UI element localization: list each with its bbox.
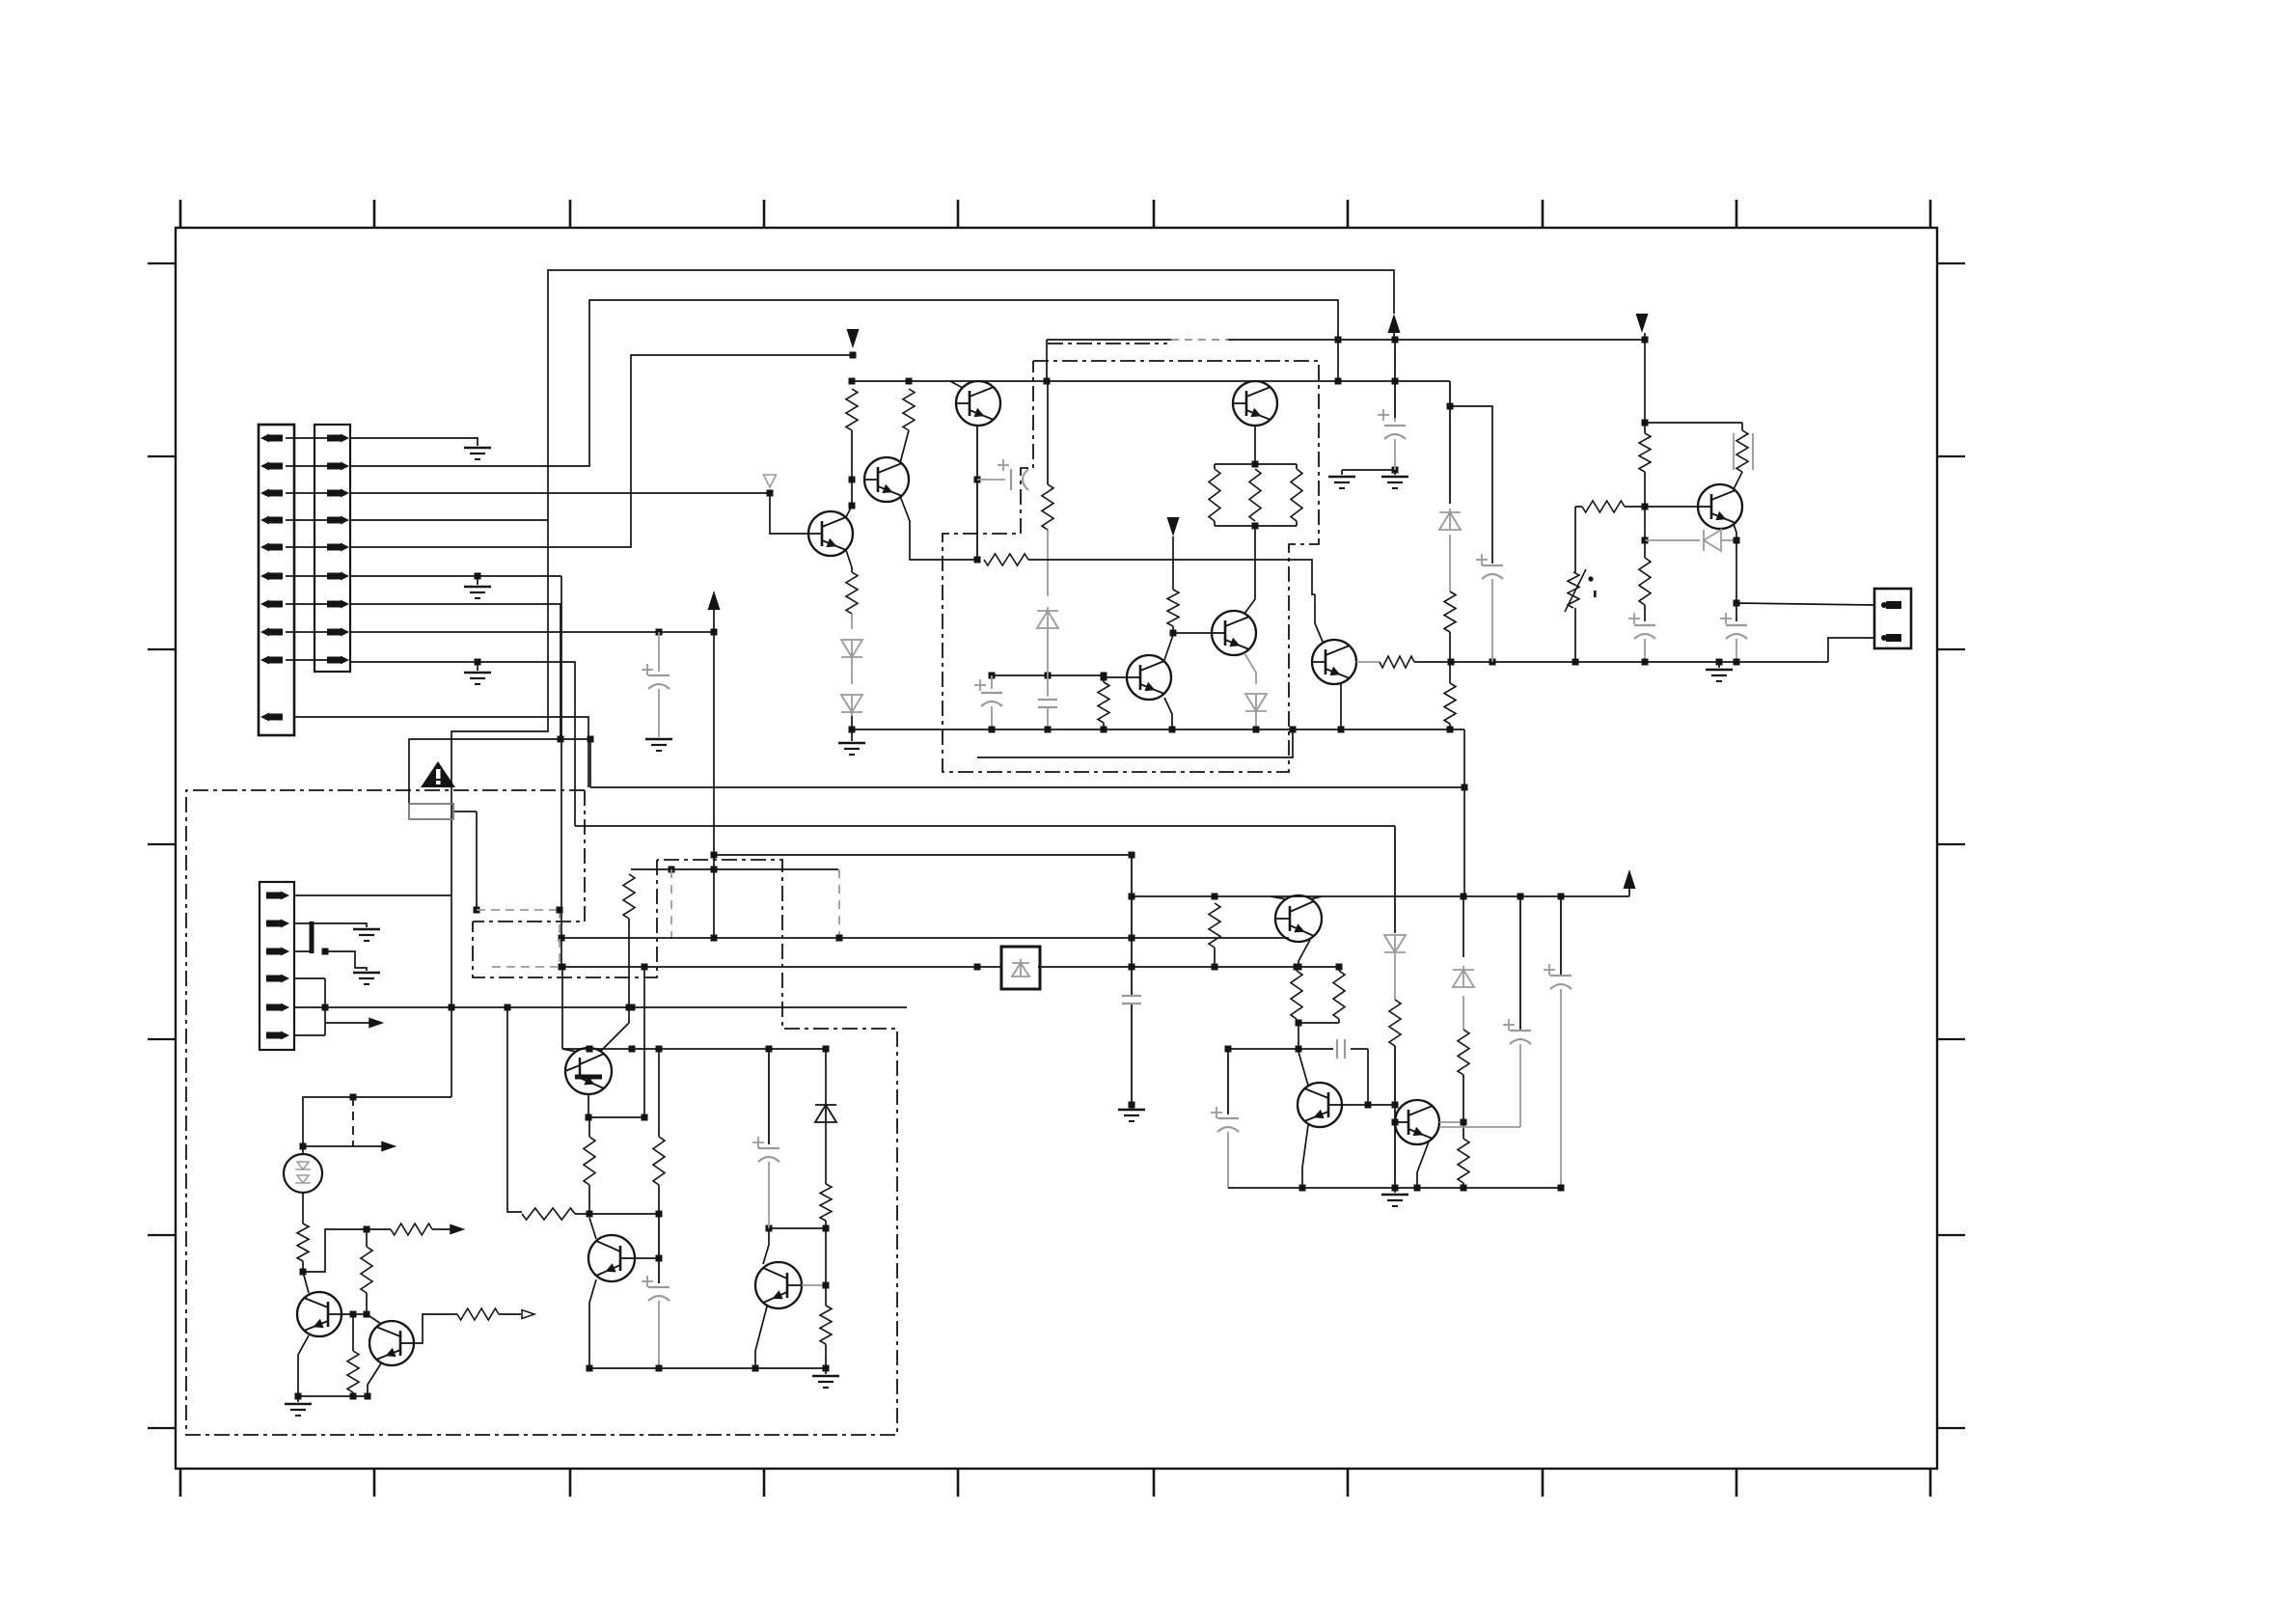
wire opto feed row 1137 <box>300 1094 452 1155</box>
wire bottom bus y686 <box>1414 659 1828 666</box>
resistor R35 <box>1458 1139 1469 1192</box>
capacitor C11 <box>1122 995 1141 997</box>
wire x1273 drop <box>1227 1049 1229 1114</box>
wire W1 from R4 to Q7 collector <box>1028 560 1315 594</box>
wire Q10 collector <box>1298 1052 1308 1086</box>
wire Q7 emitter <box>1340 683 1342 729</box>
wire D1-D2 <box>851 661 853 684</box>
resistor R15 with diagonal <box>1565 569 1586 612</box>
transistor Q2 <box>1233 381 1277 426</box>
wire pin row 597 with ground stub <box>350 573 561 586</box>
ground G10 <box>353 972 380 975</box>
capacitor C15 <box>1550 975 1572 977</box>
wire W2 <box>575 825 1395 827</box>
diode D4 zener <box>1037 611 1058 628</box>
resistor R8 <box>1167 590 1179 626</box>
connector CN3 <box>260 882 294 1050</box>
transistor Q4 <box>808 511 853 556</box>
diode D3 <box>1245 694 1267 711</box>
wire pin row 686 with ground stub, riser to W2 <box>350 659 575 827</box>
wire rail929 arrow stub <box>1628 889 1630 896</box>
plus sign C13 <box>1211 1112 1222 1114</box>
diode D1 <box>841 640 862 657</box>
wire ground pair row <box>1342 467 1399 476</box>
wire opto to R20 <box>302 1193 304 1224</box>
wire fuse drop x494 <box>474 811 480 914</box>
wire Q2 collector down <box>1252 426 1259 468</box>
diode D2 <box>841 695 862 712</box>
wire rail 756 <box>852 727 1464 733</box>
transistor Q15 <box>297 1292 342 1336</box>
diode D10 zener <box>1453 970 1474 987</box>
diode D5 row <box>1645 530 1740 551</box>
wire rail B (mid horizontal) <box>1047 337 1649 382</box>
dashed link x366 <box>352 1097 354 1146</box>
wire Q11 emitter <box>1417 1142 1429 1188</box>
wire flag row 1188 <box>303 1145 382 1147</box>
wire rail V3 <box>350 352 857 548</box>
plus sign C5 <box>1378 414 1389 416</box>
resistor R25 horizontal <box>522 1208 663 1220</box>
transistor Q5 <box>1212 611 1256 655</box>
transistor Q16 <box>369 1321 414 1365</box>
wire W818 <box>590 739 1463 787</box>
ground G7 <box>1381 470 1408 488</box>
wire Q2 collector to Q5 <box>1244 526 1255 614</box>
wire Q12 collector <box>600 1007 629 1052</box>
diode D9 <box>1384 935 1406 952</box>
dash-dot big box left/bottom <box>186 790 897 1435</box>
wire Q16 collector <box>367 1314 381 1324</box>
wire Q14 emitter <box>752 1307 768 1372</box>
capacitor C5 <box>1384 340 1406 470</box>
resistor R3 <box>846 572 858 614</box>
resistor R29 <box>820 1228 832 1372</box>
wire CN3 pins 4-6 tie <box>294 978 369 1035</box>
wire riser x668 <box>643 967 645 1117</box>
wire Q9 emitter <box>1296 940 1311 971</box>
wire riser x468 to 1137 <box>451 1007 452 1097</box>
wire Q15 base row <box>342 1311 367 1318</box>
wire x1800 chain <box>1734 540 1740 621</box>
power arrow down at 1216 <box>1167 517 1180 536</box>
wire rail V2 <box>350 300 1338 466</box>
capacitor C8 <box>1482 565 1503 662</box>
transistor Q9 <box>1275 895 1322 942</box>
wire Q16 base loop <box>414 1314 457 1343</box>
transistor Q11 <box>1395 1100 1439 1144</box>
wire branch x1547 <box>1450 406 1492 564</box>
wire Q1 collector stub <box>950 381 963 388</box>
wire Q15 collector <box>303 1272 309 1293</box>
connector CN3 pins <box>266 892 289 1040</box>
wire Q7 base to R11 <box>1356 661 1380 663</box>
resistor R13 fusible <box>1734 423 1753 472</box>
wire CN3 pin2 pin3 tie <box>294 922 367 953</box>
wire riser x526 to R25 <box>507 1007 522 1212</box>
wire Q10 emitter <box>1302 1125 1308 1188</box>
dashed riser x696 <box>670 869 672 938</box>
wire node row y700 <box>989 673 1107 679</box>
capacitor C1 (683) with ground <box>648 632 670 737</box>
ground G5 <box>838 729 865 755</box>
resistor R22 <box>361 1229 372 1318</box>
connector CN2 pins <box>327 434 349 665</box>
wire Q11 base stub <box>1394 1121 1396 1123</box>
resistor R14 horizontal <box>1575 501 1625 512</box>
ground G3 <box>464 672 491 674</box>
ground G12 <box>812 1375 839 1378</box>
plus sign C15 <box>1544 969 1555 971</box>
transistor Q7 <box>1312 640 1356 684</box>
warning triangle <box>421 761 455 787</box>
wire CN2 pin1 to ground <box>350 438 478 446</box>
resistor R20 <box>297 1224 309 1276</box>
transistor Q14 <box>755 1262 802 1308</box>
fuse F1 with feed <box>409 739 560 819</box>
capacitor C9 <box>648 1287 670 1372</box>
wire Q1 base vertical <box>974 426 981 560</box>
resistor R11 horizontal <box>1380 656 1414 668</box>
resistor R27 <box>653 1049 665 1214</box>
wire Q13 base row <box>635 1255 663 1262</box>
ground G11 <box>285 1403 312 1406</box>
resistor R10 <box>1098 677 1109 733</box>
dash-dot big box segs <box>473 790 657 977</box>
capacitor C4 <box>1038 675 1057 733</box>
wire Q8 emitter <box>1734 524 1736 540</box>
ground G4 <box>645 738 672 741</box>
capacitor C14 <box>1510 1030 1531 1032</box>
wire rail V1 stub to rail B <box>1393 333 1395 340</box>
wire riser x568 lower leg <box>451 520 548 895</box>
capacitor C13 <box>1217 1118 1239 1188</box>
plus sign C2 <box>998 464 1009 466</box>
diode D8 <box>815 1105 836 1122</box>
wire x856 chain <box>825 1049 827 1184</box>
wire Q12 emitter row <box>586 1094 648 1121</box>
wire rail 929 <box>1132 894 1629 900</box>
diode box D7 <box>1001 947 1040 989</box>
resistor R2 <box>903 389 915 430</box>
plus sign C7 <box>1720 618 1732 619</box>
wire cap row 1087 <box>1225 1046 1369 1053</box>
text marks near R15 <box>1588 576 1596 597</box>
wire row 1273 to x856 <box>769 1225 830 1232</box>
connector CN1 <box>259 425 294 735</box>
resistor bank R5 R6 R7 <box>1209 464 1302 530</box>
resistor R4 horizontal <box>984 554 1028 565</box>
ground G8 <box>1706 662 1733 681</box>
ground G13 <box>1381 1188 1408 1206</box>
capacitor C6 <box>1634 625 1655 666</box>
wire x1446 chain upper <box>1394 826 1396 933</box>
wire W5 <box>559 935 1290 942</box>
wire CN4 pin2 row <box>1828 638 1874 662</box>
wire base row Q8 <box>1625 506 1698 508</box>
plus sign C14 <box>1503 1024 1515 1026</box>
wire x1504 chain <box>1447 381 1454 591</box>
resistor R28 <box>820 1184 832 1228</box>
wire arrow to R8 <box>1172 536 1174 590</box>
wire pin row 655 to cap and riser 740 <box>350 629 718 636</box>
flag arrow right at 1060 <box>369 1019 382 1028</box>
plus sign C8 <box>1476 559 1488 561</box>
wire Q14 collector to cap node <box>763 1225 773 1265</box>
transistor Q13 <box>588 1235 635 1281</box>
wire D2 to rail756 <box>849 716 856 733</box>
plus sign C6 <box>1628 618 1640 619</box>
ground G1 <box>464 447 491 450</box>
wire Q7 collector riser <box>1315 594 1323 642</box>
wire rail V1 (top) <box>350 270 1394 520</box>
resistor R19 <box>623 874 635 1011</box>
diode D6 <box>1439 512 1461 530</box>
wire W4 row 1087 <box>562 1046 830 1053</box>
resistor R18 below bus <box>1444 662 1456 729</box>
wire rail C at y=395 <box>849 378 1451 385</box>
connector CN2 <box>314 425 350 672</box>
wire Q13 collector <box>589 1218 596 1239</box>
wire W7 row from CN3 pin5 <box>294 1004 907 1011</box>
wire x1633 chain <box>1572 507 1579 666</box>
wire Q4 collector <box>846 506 852 517</box>
capacitor C3 polarized <box>981 675 1002 733</box>
wire to cap row 1087 <box>1296 1023 1302 1053</box>
flag open down-arrow at 798,497 <box>764 475 777 487</box>
wire x1576 chain <box>1439 896 1520 1127</box>
wire W3b <box>631 867 838 873</box>
wire x1705 upper chain <box>1642 333 1649 433</box>
dashed riser x870 <box>838 869 840 938</box>
power arrow up at 1689 <box>1624 869 1636 889</box>
wire CN3 pin1 row <box>294 894 451 896</box>
transistor Q10 <box>1298 1083 1342 1127</box>
ground G14 <box>1118 1105 1145 1121</box>
wire riser x582 <box>559 576 565 971</box>
power arrow up on rail V1 <box>1388 314 1401 333</box>
wire Q5 emitter to D3 <box>1244 653 1256 684</box>
wire Q16 emitter <box>365 1363 382 1400</box>
wire x797 from W4 <box>768 1049 770 1144</box>
flag arrow right at 1274 <box>451 1225 463 1234</box>
wire bottom row 1447 <box>298 1396 368 1402</box>
power arrow down at node 884,368 <box>847 329 860 348</box>
wire riser x468 <box>449 895 455 1011</box>
wire node 1318 loop <box>303 1226 370 1273</box>
resistor R34 <box>1458 1030 1469 1075</box>
resistor R31 <box>1209 903 1220 967</box>
wire x884 chain <box>849 430 856 509</box>
wire riser x583 <box>560 964 566 1050</box>
wire Q10 base stub <box>1342 1104 1368 1106</box>
wire D4 to node700 <box>1047 628 1049 675</box>
wire Q3 emitter to y580 <box>900 496 981 564</box>
wire Q14 base row <box>802 1282 830 1289</box>
plus sign C3 <box>974 684 986 686</box>
resistor R23 horizontal <box>457 1308 521 1320</box>
optocoupler PC1 <box>284 1154 322 1193</box>
wire bank bottom 1060 <box>1296 1020 1340 1027</box>
capacitor C12 horizontal <box>1336 1039 1338 1059</box>
resistor R17 <box>1444 591 1456 662</box>
resistor R21 horizontal <box>367 1224 451 1235</box>
wire x1173 chain <box>1129 855 1135 1109</box>
wire Q4 emitter chain <box>846 550 852 572</box>
wire x683 lower <box>658 1214 660 1283</box>
flag arrow right at 1188 <box>382 1142 395 1151</box>
transistor Q6 <box>1127 655 1171 700</box>
resistor R1 <box>846 389 858 430</box>
capacitor C7 <box>1726 625 1747 666</box>
wire D3 to rail756 <box>1253 715 1260 733</box>
wire Q6 emitter <box>1164 698 1176 733</box>
border tick marks <box>148 200 1965 1497</box>
wire pin row 511 to Q4 base <box>350 490 808 535</box>
wire Q11 right lead <box>1439 1121 1463 1123</box>
ground G6 <box>1328 476 1355 479</box>
wire Q9 base <box>1271 896 1287 899</box>
wire W3a <box>714 852 1135 859</box>
wire x1086 chain <box>1047 381 1049 596</box>
resistor R33 <box>1333 967 1345 1023</box>
wire W6 diode box row <box>561 964 1218 971</box>
transistor Q3 <box>864 457 909 502</box>
power arrow up at 740 <box>708 591 721 610</box>
dash-dot stub top <box>1048 343 1167 344</box>
wire Q15 emitter <box>295 1335 310 1400</box>
resistor R24 <box>347 1314 359 1400</box>
flag open arrow at 1362 <box>522 1310 534 1319</box>
plus sign C10 <box>752 1142 764 1143</box>
capacitor C2 polarized horizontal <box>977 469 1028 490</box>
resistor R9 <box>1042 484 1053 530</box>
plus sign C1 <box>642 669 653 671</box>
transistor Q12 <box>565 1048 612 1094</box>
wire Q6 collector <box>1164 635 1173 660</box>
resistor R12 <box>1639 433 1651 472</box>
wire riser x740 with junctions <box>711 606 718 942</box>
wire bottom bus 1231 <box>1228 1185 1561 1192</box>
connector CN4 pins <box>1881 601 1901 642</box>
wire Q9 collector <box>1310 896 1322 899</box>
wire CN1-CN2 row links <box>286 438 328 660</box>
wire pin row 743 riser to W818 <box>294 717 588 787</box>
plus sign C9 <box>642 1280 653 1282</box>
resistor R30 <box>1389 1000 1401 1192</box>
wire R3 to diodes <box>851 614 853 629</box>
transistor Q8 <box>1698 484 1742 529</box>
wire CN4 pin1 row <box>1736 603 1874 605</box>
ground G9 <box>353 928 380 931</box>
wire y438 to R13 <box>1645 422 1742 424</box>
wire x1418 drop to base node <box>1365 1049 1396 1109</box>
wire R8 to Q5 base <box>1170 626 1213 637</box>
wire branch y785 <box>977 729 1293 757</box>
transistor Q1 <box>956 381 1000 426</box>
wire pin row 626 riser <box>350 604 594 743</box>
wire bus 1002 right part <box>1215 964 1343 971</box>
wire D9 to R30 <box>1394 956 1396 1000</box>
page border frame <box>176 228 1937 1469</box>
resistor R16 <box>1639 540 1651 621</box>
connector CN1 pins <box>260 434 283 722</box>
wire Q13 emitter <box>587 1279 597 1372</box>
wire x1517 chain <box>1461 729 1468 1139</box>
wire pin3 ground stub <box>322 949 368 972</box>
wire Q8 collector <box>1734 472 1742 489</box>
wire Q3 collector <box>900 430 909 463</box>
ground G2 <box>464 586 491 589</box>
wire bottom row 1418 <box>589 1368 826 1374</box>
wire Q12 base <box>562 1049 577 1052</box>
dash-dot boundary central block <box>943 361 1319 772</box>
wire Q6 base <box>1101 674 1128 681</box>
wire x1618 chain <box>1558 896 1565 1192</box>
wire R12 to base node <box>1642 472 1649 544</box>
resistor R26 <box>584 1117 595 1214</box>
connector CN4 <box>1874 589 1911 648</box>
capacitor C10 <box>758 1148 779 1228</box>
dashed box near fuse <box>477 907 563 968</box>
resistor R32 <box>1291 967 1302 1023</box>
power arrow down at 1702 <box>1636 314 1649 333</box>
